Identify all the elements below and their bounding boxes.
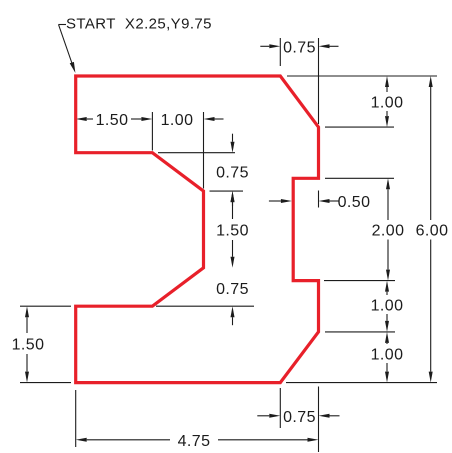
svg-text:0.50: 0.50 bbox=[338, 194, 371, 211]
svg-text:1.00: 1.00 bbox=[161, 112, 194, 129]
svg-text:4.75: 4.75 bbox=[178, 433, 211, 450]
svg-text:1.50: 1.50 bbox=[12, 337, 45, 354]
svg-text:0.75: 0.75 bbox=[283, 40, 316, 57]
svg-text:0.75: 0.75 bbox=[216, 281, 249, 298]
svg-text:1.50: 1.50 bbox=[96, 112, 129, 129]
svg-text:START X2.25,Y9.75: START X2.25,Y9.75 bbox=[66, 16, 212, 33]
svg-text:1.50: 1.50 bbox=[216, 223, 249, 240]
svg-text:1.00: 1.00 bbox=[371, 298, 404, 315]
svg-text:1.00: 1.00 bbox=[371, 347, 404, 364]
svg-text:6.00: 6.00 bbox=[416, 223, 449, 240]
svg-text:2.00: 2.00 bbox=[372, 223, 405, 240]
svg-text:0.75: 0.75 bbox=[216, 165, 249, 182]
svg-text:0.75: 0.75 bbox=[283, 409, 316, 426]
svg-text:1.00: 1.00 bbox=[371, 95, 404, 112]
